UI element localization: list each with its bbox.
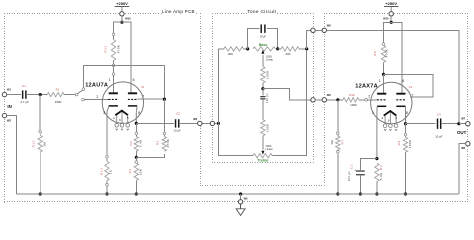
wire output to W7	[459, 123, 466, 125]
node R4 ground	[135, 192, 138, 195]
node junction B+ right	[390, 21, 393, 24]
node ground tap	[239, 192, 242, 195]
svg-text:W7: W7	[461, 117, 465, 121]
svg-text:5.6K: 5.6K	[379, 172, 383, 180]
value 20K right	[285, 52, 290, 56]
svg-text:1: 1	[379, 79, 381, 83]
pin circle R2 top	[163, 132, 166, 135]
terminal W9b	[322, 98, 326, 102]
svg-text:20K: 20K	[228, 52, 233, 56]
svg-text:4: 4	[381, 116, 383, 120]
label R9	[397, 140, 401, 145]
potentiometer Bass 100K	[253, 47, 276, 51]
wire B+ to plate pin 6 V1	[122, 22, 131, 92]
svg-text:+250V: +250V	[116, 1, 128, 6]
svg-text:10 µF: 10 µF	[173, 128, 180, 132]
triode V1 12AU7A	[102, 82, 143, 130]
terminal W4	[210, 121, 214, 125]
wire W10 to junction	[121, 16, 123, 22]
pin number 4 V1	[113, 116, 115, 120]
svg-text:100K: 100K	[266, 70, 270, 79]
wire plate1 rail V1	[84, 66, 165, 89]
wire diagonal rail to grid stopper	[78, 90, 83, 94]
svg-text:Linear: Linear	[266, 57, 273, 61]
terminal W5 ground	[238, 200, 242, 204]
wire C4 to output node	[441, 123, 459, 125]
svg-text:7: 7	[142, 95, 144, 99]
wire R2 bottom link	[136, 154, 164, 158]
svg-text:Tone Circuit: Tone Circuit	[247, 9, 276, 15]
pin number 9 V2	[388, 118, 390, 122]
pin circle R13 top	[39, 130, 42, 133]
svg-text:C3: C3	[350, 164, 354, 169]
pin circle R11 bottom on plate rail	[112, 64, 115, 67]
value C3 100uF	[348, 171, 351, 181]
value C1 4.7uF	[20, 100, 29, 104]
node junction tone output	[261, 87, 264, 90]
node junction C1/R1/R13	[39, 93, 42, 96]
pin circle R8 top	[382, 43, 385, 46]
wire cathode1 pin3 V2 to node	[376, 107, 378, 159]
capacitor bass .039uF	[248, 25, 278, 49]
node junction pin8/C4/R9	[404, 122, 407, 125]
pin number 5 V1	[127, 116, 129, 120]
node junction output	[457, 122, 460, 125]
pin number 8 V2	[406, 111, 408, 115]
label R4	[128, 168, 132, 173]
label Line Amp PCB	[162, 9, 195, 14]
terminal W2 input ground	[2, 113, 6, 117]
label W5	[244, 197, 248, 201]
wire bass wiper to 100K upper	[262, 55, 264, 67]
svg-text:W9: W9	[327, 93, 331, 97]
svg-text:W1: W1	[7, 88, 11, 92]
value R11 470K	[117, 45, 121, 54]
svg-text:R7: R7	[340, 139, 344, 144]
wire B+ to R11	[114, 22, 122, 33]
wire pin8 to C2	[136, 122, 174, 124]
wire tone output jog	[263, 89, 311, 100]
value 100K mid	[265, 123, 269, 132]
svg-text:470K: 470K	[117, 45, 121, 54]
svg-text:8: 8	[138, 111, 140, 115]
pin circle pin1 V1	[112, 73, 115, 76]
wire node down to R7	[337, 100, 339, 132]
capacitor C4	[438, 119, 441, 129]
svg-text:100 pF: 100 pF	[266, 93, 269, 103]
label Treble	[257, 158, 268, 162]
triode V2 12AX7A	[371, 82, 412, 130]
pin circle plate rail tap	[82, 88, 85, 91]
label C1	[22, 84, 26, 88]
wire feedback top run	[327, 30, 459, 122]
resistor R6	[375, 163, 379, 194]
label OUT	[457, 130, 467, 135]
label 12AX7A	[355, 84, 378, 90]
label C2	[176, 112, 180, 116]
pin circle R11 top	[112, 33, 115, 36]
svg-text:R6: R6	[379, 165, 383, 170]
label R10	[349, 93, 355, 97]
value R4 10K	[139, 169, 143, 176]
wire C3 to rail	[359, 175, 361, 194]
svg-text:R2: R2	[156, 140, 160, 145]
pin circle R12 top	[106, 155, 109, 158]
svg-text:5: 5	[395, 116, 397, 120]
dashed enclosure right amp box	[324, 13, 468, 202]
label R1	[56, 87, 60, 91]
node junction tone input	[217, 122, 220, 125]
capacitor 100pF	[260, 89, 265, 120]
wire between W8 terminals	[315, 29, 322, 31]
svg-text:3: 3	[103, 111, 105, 115]
svg-text:7: 7	[412, 94, 414, 98]
terminal W3	[198, 121, 202, 125]
svg-text:R12: R12	[100, 168, 104, 175]
terminal W1 input	[2, 92, 6, 96]
label V1	[141, 85, 145, 89]
capacitor C2	[176, 119, 179, 127]
wire C2 to terminals	[179, 122, 217, 124]
svg-text:1M: 1M	[42, 142, 46, 147]
label Tone Circuit	[247, 9, 276, 15]
label R2	[156, 140, 160, 145]
ground symbol	[236, 204, 245, 215]
wire rail to grid2 pin 7 V1	[138, 66, 165, 100]
label IN	[7, 104, 11, 109]
label W2	[7, 119, 11, 123]
svg-text:W10: W10	[125, 17, 131, 21]
node junction bass left	[246, 47, 249, 50]
wire W6 to rail	[459, 144, 466, 194]
node junction R3/R4/R2	[135, 156, 138, 159]
wire ground tap to W5	[240, 194, 242, 200]
svg-text:R3: R3	[129, 140, 133, 145]
node R12 ground	[105, 192, 108, 195]
value R13 1M	[42, 142, 46, 147]
svg-text:8: 8	[406, 111, 408, 115]
value R10 1000	[350, 103, 357, 107]
supply +250V (right)	[384, 1, 399, 11]
wire between tone out terminals	[315, 99, 322, 101]
svg-text:10 µF: 10 µF	[435, 135, 442, 139]
node junction R8/plate1 V2	[382, 73, 385, 76]
resistor 100K mid	[261, 120, 265, 150]
pin number 3 V2	[372, 111, 374, 115]
value 100pF	[266, 93, 269, 103]
svg-text:9: 9	[388, 118, 390, 122]
wire B+ to R8	[384, 22, 392, 43]
terminal W10 (left)	[120, 12, 124, 16]
svg-text:C4: C4	[437, 113, 441, 117]
wire C1 to node	[26, 94, 47, 96]
label R8	[373, 51, 377, 56]
svg-text:9: 9	[119, 118, 121, 122]
resistor R10	[343, 98, 365, 102]
value R9 100K	[408, 140, 412, 149]
svg-text:470K: 470K	[166, 139, 170, 148]
svg-text:R1: R1	[56, 87, 60, 91]
svg-text:1K: 1K	[109, 170, 113, 174]
label W6	[461, 146, 465, 150]
value 20K left	[228, 52, 233, 56]
pin number 5 V2	[395, 116, 397, 120]
dashed enclosure Line Amp PCB (left box)	[4, 13, 201, 203]
value R8 470K	[385, 49, 389, 58]
wire grid1 to tube	[84, 99, 108, 101]
wire cathode2 pin8 V2 to out	[405, 107, 407, 124]
pin circle R7 top	[337, 132, 340, 135]
label W10 (right)	[383, 17, 389, 21]
label R12	[100, 168, 104, 175]
pin circle grid1 V1	[82, 98, 85, 101]
wire ground rail	[17, 193, 459, 195]
svg-text:R9: R9	[397, 140, 401, 145]
label treble pot 100K Linear	[265, 144, 272, 151]
resistor R7	[336, 135, 340, 151]
pin number 3 V1	[103, 111, 105, 115]
node R13 ground	[39, 192, 42, 195]
pin circle R7 bottom	[337, 151, 340, 154]
svg-text:2.4K: 2.4K	[139, 139, 143, 147]
label W3	[193, 117, 197, 121]
plus sign C3	[354, 168, 356, 172]
pin number 1 V1	[109, 78, 111, 82]
wire node to R13	[39, 95, 41, 131]
wire feedback riser to W8	[307, 30, 311, 49]
svg-text:W3: W3	[193, 117, 197, 121]
svg-text:1000: 1000	[350, 103, 357, 107]
node junction pin8/C2/R3	[135, 122, 138, 125]
value 100K upper	[266, 70, 270, 79]
svg-text:470K: 470K	[385, 49, 389, 58]
resistor 20K right	[278, 47, 305, 51]
svg-text:C2: C2	[176, 112, 180, 116]
value C2 10uF	[173, 128, 180, 132]
wire B+ to plate pin6 V2	[391, 22, 402, 93]
node junction B+ left	[120, 21, 123, 24]
svg-text:Bass: Bass	[259, 43, 268, 47]
svg-text:V1: V1	[141, 85, 145, 89]
svg-text:6: 6	[402, 79, 404, 83]
resistor R1 grid stopper	[47, 92, 75, 96]
value R7 1M	[330, 140, 334, 145]
svg-text:C1: C1	[22, 84, 26, 88]
label R13	[31, 140, 35, 147]
value C4 10uF	[435, 135, 442, 139]
svg-text:+250V: +250V	[385, 1, 397, 6]
wire W1 to C1	[7, 94, 22, 96]
potentiometer Treble 100K	[253, 154, 272, 158]
node R6 ground	[375, 192, 378, 195]
svg-text:12AX7A: 12AX7A	[355, 84, 378, 90]
svg-text:W5: W5	[244, 197, 248, 201]
wire tone input down to treble branch	[218, 123, 253, 155]
svg-text:W8: W8	[327, 24, 331, 28]
value bass cap 39uF	[260, 36, 267, 38]
svg-text:+: +	[354, 168, 356, 172]
svg-text:4.7 µF: 4.7 µF	[20, 100, 29, 104]
label R7	[340, 139, 344, 144]
svg-text:R8: R8	[373, 51, 377, 56]
svg-text:W2: W2	[7, 119, 11, 123]
label 12AU7A	[85, 82, 108, 88]
dashed outer tone boundary bottom	[200, 13, 325, 186]
resistor R13	[38, 133, 42, 194]
wire W2 to ground rail	[7, 116, 17, 194]
svg-text:4: 4	[113, 116, 115, 120]
wire stub rail to pin 1 V1	[113, 67, 115, 73]
supply +250V (left)	[115, 1, 130, 11]
svg-text:OUT: OUT	[457, 130, 467, 135]
label C4	[437, 113, 441, 117]
svg-text:12AU7A: 12AU7A	[85, 82, 108, 88]
pin number 6 V2	[402, 79, 404, 83]
svg-text:39 µF: 39 µF	[260, 36, 267, 38]
node R7 ground	[336, 192, 339, 195]
label C3	[350, 164, 354, 169]
pin number 8 V1	[138, 111, 140, 115]
label W7	[461, 117, 465, 121]
node junction tone out/R10/R7	[336, 98, 339, 101]
label bass pot 100K Linear	[266, 54, 273, 61]
label Bass	[259, 43, 268, 47]
svg-text:V2: V2	[409, 85, 413, 89]
wire tone out to R10	[327, 99, 343, 101]
terminal W8b	[322, 28, 326, 32]
pin number 4 V2	[381, 116, 383, 120]
svg-text:3: 3	[372, 111, 374, 115]
svg-text:10K: 10K	[139, 169, 143, 176]
pin number 9 V1	[119, 118, 121, 122]
node junction grid2/R2	[163, 98, 166, 101]
dashed enclosure Tone Circuit (inner box)	[212, 13, 314, 163]
value R12 1K	[109, 170, 113, 174]
svg-text:Linear: Linear	[265, 147, 272, 151]
resistor R4	[134, 157, 138, 194]
svg-text:100K: 100K	[408, 140, 412, 149]
svg-text:R11: R11	[104, 45, 108, 52]
svg-text:1: 1	[109, 78, 111, 82]
wire pin1 into tube	[113, 75, 115, 92]
label W10 (left)	[125, 17, 131, 21]
pin circle grid1 V2	[365, 99, 368, 102]
svg-text:20K: 20K	[285, 52, 290, 56]
resistor R11	[111, 36, 115, 65]
terminal W6 output ground	[466, 142, 470, 146]
node C3 ground	[359, 192, 362, 195]
pin circle R4 top	[135, 161, 138, 164]
terminal W8a	[311, 28, 315, 32]
pin circle R3 top	[135, 132, 138, 135]
terminal W9a	[311, 98, 315, 102]
wire cathode node to C3	[360, 159, 377, 170]
wire W10 right to junction	[390, 16, 392, 22]
pin number 6 V1	[133, 78, 135, 82]
capacitor C3	[356, 171, 365, 175]
resistor R9	[403, 136, 407, 194]
bass wiper arrow	[261, 50, 264, 54]
resistor R2	[162, 99, 166, 151]
wire pin8 to C4	[406, 123, 436, 125]
pin circle R1 output	[75, 93, 78, 96]
label R6	[379, 165, 383, 170]
wire pin8 node to R9	[405, 124, 407, 134]
resistor 100K upper	[261, 67, 265, 88]
resistor R3	[134, 135, 138, 158]
value R2 470K	[166, 139, 170, 148]
label R11	[104, 45, 108, 52]
wire treble right to feedback riser	[272, 51, 306, 156]
pin number 7 V2	[412, 94, 414, 98]
pin number 2 V1	[96, 95, 98, 99]
value R6 5.6K	[379, 172, 383, 180]
label R3	[129, 140, 133, 145]
wire R10 to tube V2	[368, 99, 378, 101]
resistor 20K left	[224, 47, 248, 51]
svg-text:2: 2	[368, 95, 370, 99]
wire tone input up to bass branch	[218, 49, 223, 124]
value R1 1000	[55, 100, 62, 104]
svg-text:100K: 100K	[265, 123, 269, 132]
svg-text:2: 2	[96, 95, 98, 99]
wire R12 to rail	[106, 186, 108, 194]
terminal W10 (right)	[389, 12, 393, 16]
node junction bass right	[276, 47, 279, 50]
svg-text:5: 5	[127, 116, 129, 120]
pin number 7 V1	[142, 95, 144, 99]
wire R7 to rail	[337, 153, 339, 194]
dashed bottom edge shared (all boxes)	[4, 201, 468, 202]
svg-text:Line Amp PCB: Line Amp PCB	[162, 9, 195, 14]
svg-text:1M: 1M	[330, 140, 334, 145]
label W1	[7, 88, 11, 92]
treble wiper arrow	[261, 151, 264, 155]
node R9 ground	[404, 192, 407, 195]
node junction cathode V2	[375, 157, 378, 160]
wire cathode2 pin8 junction	[135, 106, 138, 123]
svg-text:W6: W6	[461, 146, 465, 150]
svg-text:1000: 1000	[55, 100, 62, 104]
value R3 2.4K	[139, 139, 143, 147]
svg-text:R4: R4	[128, 168, 132, 173]
pin number 1 V2	[379, 79, 381, 83]
label W8	[327, 24, 331, 28]
resistor R12	[105, 158, 109, 184]
svg-text:6: 6	[133, 78, 135, 82]
pin circle R9 top	[404, 133, 407, 136]
terminal W7 output	[466, 122, 470, 126]
pin circle R12 bottom	[106, 183, 109, 186]
wire plate1 stub into tube V2	[383, 74, 385, 93]
wire cathode1 pin3 to R12	[107, 106, 109, 155]
svg-text:100 µF: 100 µF	[348, 171, 351, 181]
wire plate1 to grid2 V2 loop	[384, 74, 434, 97]
label V2	[409, 85, 413, 89]
resistor R8	[381, 45, 385, 74]
svg-text:R13: R13	[31, 140, 35, 147]
svg-text:R10: R10	[349, 93, 355, 97]
pin number 2 V2	[368, 95, 370, 99]
wire pin8 node to R3	[135, 123, 137, 132]
node junction feedback/20K	[305, 47, 308, 50]
svg-text:W10: W10	[383, 17, 389, 21]
svg-text:Treble: Treble	[257, 158, 268, 162]
svg-text:IN: IN	[7, 104, 11, 109]
capacitor C1	[23, 90, 26, 98]
label W9	[327, 93, 331, 97]
